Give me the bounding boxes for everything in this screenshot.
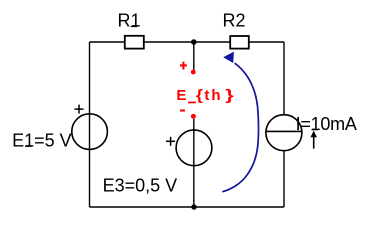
svg-text:R2: R2 <box>223 11 246 31</box>
wire middle lower <box>193 119 195 207</box>
svg-text:E1=5 V: E1=5 V <box>12 131 72 151</box>
voltage source E3 <box>176 130 212 166</box>
wire top-left segment <box>90 41 125 43</box>
svg-text:E{th}: E{th} <box>176 87 234 104</box>
label I=10mA <box>296 114 357 134</box>
resistor R1 <box>125 36 144 49</box>
polarity plus E3 <box>166 137 175 146</box>
wire left side <box>89 42 91 207</box>
loop arrow curve <box>222 63 258 192</box>
svg-text:R1: R1 <box>118 11 141 31</box>
loop arrow head <box>223 52 234 63</box>
label E_{th} <box>176 87 234 104</box>
current source I <box>266 115 302 151</box>
current source bar <box>266 130 302 132</box>
wire top-right segment <box>249 41 284 43</box>
label R1 <box>118 11 141 31</box>
node red terminal minus <box>191 114 196 119</box>
current direction arrow <box>311 131 317 149</box>
label E1=5 V <box>12 131 72 151</box>
resistor R2 <box>230 36 249 49</box>
red plus mark <box>180 62 187 70</box>
polarity plus E1 <box>75 105 84 114</box>
svg-text:E3=0,5 V: E3=0,5 V <box>103 175 178 195</box>
node bottom junction <box>191 204 196 209</box>
voltage source E1 <box>72 114 108 150</box>
node top junction <box>191 39 197 45</box>
wire right side lower <box>283 151 285 208</box>
node red terminal plus <box>191 70 196 75</box>
svg-text:I=10mA: I=10mA <box>296 114 357 134</box>
wire right side upper <box>283 42 285 115</box>
red minus mark <box>180 109 185 111</box>
wire middle upper <box>193 42 195 71</box>
wire top-middle segment <box>144 41 230 43</box>
wire bottom <box>90 206 285 208</box>
